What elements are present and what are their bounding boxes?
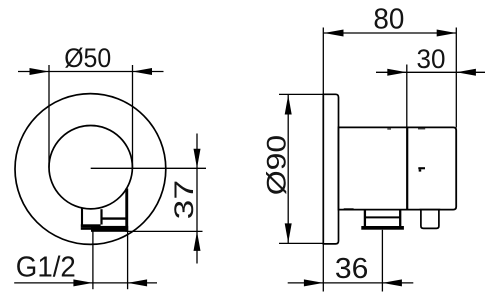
- nipple thread ticks: [81, 227, 91, 229]
- dimension Ø50 left extension line: [48, 65, 50, 168]
- svg-text:Ø90: Ø90: [262, 135, 292, 196]
- dimension Ø90 top arrow: [285, 95, 292, 115]
- nipple collar top edge: [101, 217, 129, 219]
- spout right wall: [399, 210, 401, 228]
- dimension 80 left arrow: [324, 30, 344, 37]
- dimension 37 top arrow: [194, 149, 201, 169]
- dimension 37 line: [196, 134, 198, 264]
- dimension Ø50 right extension line: [132, 65, 134, 168]
- valve body side view: [339, 127, 457, 209]
- dimension 80 line: [324, 32, 457, 34]
- nipple square fitting bottom bar: [81, 224, 101, 227]
- spout left wall: [364, 210, 366, 228]
- body divider line: [406, 127, 408, 209]
- center line horizontal: [91, 167, 206, 169]
- svg-text:80: 80: [373, 3, 404, 35]
- nipple bottom cap: [91, 226, 128, 232]
- dimension 37 bottom arrow: [194, 231, 201, 251]
- dimension 36 left extension line: [322, 244, 324, 292]
- dimension 80 right arrow: [437, 30, 457, 37]
- dimension 30 left extension line: [406, 65, 408, 128]
- body bottom edge over button: [420, 209, 441, 211]
- dimension 36 right arrow: [382, 279, 402, 286]
- nipple square fitting left edge: [81, 208, 83, 226]
- dimension 30 right arrow: [456, 69, 476, 76]
- dimension 30 line: [376, 71, 485, 73]
- extension line bottom of nipple: [127, 230, 203, 232]
- dimension 80 left extension line: [322, 28, 324, 96]
- dimension 36 line: [288, 282, 414, 284]
- button under handle: [421, 210, 439, 229]
- dimension Ø50 line: [18, 71, 164, 73]
- tick on top edge left: [387, 128, 391, 130]
- nipple collar right edge up to circle: [125, 189, 128, 232]
- dimension G1/2 left extension line: [92, 232, 94, 290]
- svg-text:30: 30: [417, 44, 446, 74]
- dimension Ø90 bottom arrow: [285, 223, 292, 243]
- dimension G1/2 right extension line: [127, 232, 129, 290]
- dimension G1/2 left arrow: [73, 279, 93, 286]
- small step on body bottom edge near flange: [344, 208, 354, 210]
- dimension Ø90 text: [262, 135, 292, 196]
- dimension 80 right extension line: [455, 28, 457, 128]
- dimension Ø90 bottom extension line: [279, 242, 323, 244]
- svg-text:37: 37: [169, 180, 199, 220]
- dimension Ø50 left arrow: [30, 68, 50, 75]
- svg-text:Ø50: Ø50: [64, 43, 111, 73]
- dimension 36 left arrow: [304, 279, 324, 286]
- svg-text:36: 36: [335, 253, 369, 285]
- tick on top edge right: [418, 128, 425, 130]
- spout bottom cap: [361, 226, 404, 230]
- dimension G1/2 right arrow: [128, 279, 148, 286]
- dimension Ø50 right arrow: [133, 68, 153, 75]
- handle marker stub: [419, 169, 422, 171]
- dimension 30 left arrow: [387, 69, 407, 76]
- wall flange side view: [323, 94, 338, 244]
- handle marker bar: [418, 167, 425, 169]
- svg-text:G1/2: G1/2: [16, 252, 76, 284]
- spout center extension line: [381, 230, 383, 292]
- nipple square fitting right edge: [100, 209, 102, 224]
- dimension 37 text: [169, 180, 199, 220]
- inner circle body front view: [49, 126, 132, 209]
- dimension G1/2 line: [14, 282, 157, 284]
- outer circle flange front view: [15, 94, 166, 245]
- dimension Ø90 top extension line: [279, 93, 323, 95]
- spout divider: [364, 216, 401, 218]
- dimension Ø90 line: [287, 94, 289, 243]
